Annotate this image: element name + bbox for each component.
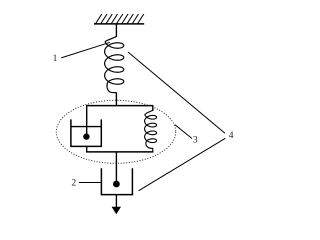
dotted ellipse around viscoelastic element (item 3): [56, 100, 175, 163]
svg-text:1: 1: [53, 54, 58, 64]
fixed support ceiling line: [94, 23, 144, 25]
damper C2 piston dot: [113, 181, 120, 188]
wire damper C2 to force arrow: [115, 195, 117, 208]
spring K1 (main suspension spring, item 1): [105, 36, 124, 92]
bottom bar of viscoelastic element frame: [86, 151, 153, 153]
damper C1 cylinder cup: [71, 119, 101, 146]
svg-text:4: 4: [229, 131, 234, 141]
leader line for label 2: [79, 182, 101, 184]
damper C2 cylinder cup (item 2): [101, 168, 132, 194]
wire ceiling to spring K1: [115, 24, 117, 37]
wire bottom bar to damper C2: [115, 152, 117, 181]
damper C1 piston plate: [71, 126, 101, 128]
damper C1 piston rod: [86, 106, 88, 134]
top bar of viscoelastic element frame: [86, 105, 153, 107]
fixed support hatching: [96, 14, 144, 24]
leader line upper for label 4: [128, 52, 225, 133]
svg-text:3: 3: [193, 136, 198, 146]
force arrow head: [112, 207, 121, 215]
svg-text:2: 2: [71, 179, 76, 189]
wire top bar to spring K2: [152, 106, 154, 111]
leader line for label 3: [175, 125, 192, 139]
wire spring K1 to top bar: [115, 93, 117, 107]
damper C1 piston dot: [83, 133, 89, 139]
leader line lower for label 4: [139, 138, 226, 191]
spring K2 (inner spring of viscoelastic element): [145, 110, 157, 151]
leader line for label 1: [61, 42, 110, 58]
wire damper C1 to bottom bar: [86, 146, 88, 152]
